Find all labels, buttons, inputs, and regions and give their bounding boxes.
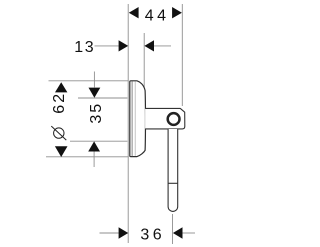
dimension 44 right arrow <box>172 7 182 18</box>
svg-text:62: 62 <box>51 92 68 114</box>
pivot screw circle <box>168 113 180 125</box>
wire extension line plate front <box>143 33 145 89</box>
svg-text:13: 13 <box>74 39 95 56</box>
svg-text:35: 35 <box>88 102 105 124</box>
svg-text:36: 36 <box>140 226 165 243</box>
wire extension line rod center <box>172 214 174 244</box>
spare roll rod <box>168 129 178 211</box>
wire dim13 tail <box>154 45 171 47</box>
wall plate inner ring line <box>131 81 133 156</box>
wall plate dome start line <box>134 82 136 156</box>
dimension 36 left-pointing arrow <box>173 227 183 238</box>
wire extension line plate top <box>49 80 129 82</box>
diameter symbol <box>51 126 66 140</box>
dimension 62 bottom arrow <box>55 146 68 157</box>
dimension 13 left-pointing arrow <box>144 40 154 51</box>
wire dim35 top tail <box>93 72 95 88</box>
wall plate escutcheon outline <box>130 81 146 157</box>
wire wall reference line <box>127 4 129 243</box>
dimension 35 top arrow <box>89 88 101 98</box>
holder arm outline <box>145 108 185 128</box>
wire dim36 left tail <box>100 232 119 234</box>
dimension 36 right-pointing arrow <box>119 227 129 238</box>
wire dim36 right tail <box>183 232 196 234</box>
wire dim35 bottom tail <box>93 152 95 168</box>
wire dim13 leader <box>95 45 119 47</box>
wire extension line plate bottom <box>46 156 129 158</box>
svg-text:44: 44 <box>145 7 170 24</box>
wire extension line dim35 bottom <box>70 140 127 142</box>
dimension 44 left arrow <box>129 7 139 18</box>
dimension 62 top arrow <box>55 82 67 92</box>
dimension 35 bottom arrow <box>88 141 100 151</box>
dimension 13 right-pointing arrow <box>119 40 129 51</box>
wire extension line dim35 top <box>78 97 127 99</box>
wire extension line arm end <box>181 4 183 106</box>
rod seam line <box>168 182 178 184</box>
